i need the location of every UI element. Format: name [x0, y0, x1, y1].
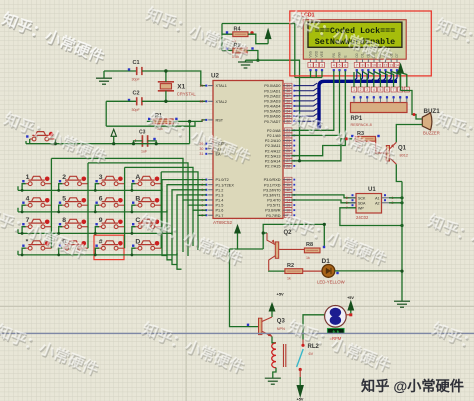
- op-amp U2 AT89C52 microcontroller body: [211, 73, 283, 226]
- capacitor C3 1uF: [134, 130, 156, 154]
- svg-text:24: 24: [286, 144, 290, 148]
- push button keypad #: [95, 239, 124, 251]
- svg-text:32: 32: [286, 120, 290, 124]
- svg-text:38: 38: [286, 89, 290, 93]
- resistor pack RP1 RESPACK-8: [351, 103, 408, 128]
- power +5V arrow Q2: [235, 226, 263, 250]
- resistor R4: [226, 27, 254, 43]
- push button keypad A: [132, 174, 161, 186]
- svg-text:P3.1/TXD: P3.1/TXD: [264, 183, 281, 187]
- svg-text:NPN: NPN: [277, 327, 285, 331]
- wire C3 stubs: [134, 141, 157, 144]
- svg-text:P1.7: P1.7: [216, 214, 224, 218]
- svg-text:1: 1: [353, 88, 355, 92]
- svg-text:4: 4: [373, 88, 375, 92]
- wire Q3 emitter to relay coil: [272, 337, 276, 343]
- power +5V arrow buzzer: [398, 64, 403, 90]
- svg-text:4: 4: [333, 64, 335, 68]
- svg-text:P2.7/A15: P2.7/A15: [265, 165, 281, 169]
- svg-text:P1.0/T2: P1.0/T2: [216, 178, 229, 182]
- wire R2 to D1: [303, 270, 323, 272]
- wire D1 to ground rail: [335, 270, 402, 272]
- svg-text:14: 14: [286, 198, 290, 202]
- wire ground rail right: [401, 182, 403, 301]
- resistor R5: [226, 43, 254, 59]
- svg-text:P1.5: P1.5: [216, 204, 224, 208]
- wire crystal top: [165, 71, 167, 82]
- push button keypad B: [132, 196, 161, 208]
- svg-text:P1.1/T2EX: P1.1/T2EX: [216, 183, 235, 187]
- wire Q1 collector to ground rail: [396, 164, 402, 181]
- svg-text:19: 19: [199, 84, 203, 88]
- LCD pin names and number boxes: [308, 50, 400, 71]
- bus entries from LCD D0-D7: [354, 71, 397, 81]
- RP1 pin risers to bus: [351, 72, 409, 103]
- wire RST lower rail: [106, 121, 195, 126]
- svg-text:RESPACK-8: RESPACK-8: [351, 123, 372, 127]
- relay RL2 switch: [297, 340, 320, 378]
- svg-text:U2: U2: [211, 73, 219, 80]
- wire C2 left rail down: [105, 101, 107, 126]
- transistor Q2: [267, 230, 304, 271]
- bus entries from P0 pins: [295, 83, 318, 121]
- wire coil bottom to ground: [273, 368, 276, 378]
- wire R4 R5 left rail: [222, 24, 233, 51]
- svg-text:VEE: VEE: [320, 51, 324, 57]
- wire P2.6 to R3: [292, 139, 353, 161]
- svg-text:AT89C52: AT89C52: [213, 220, 233, 225]
- push button reset: [26, 132, 55, 141]
- svg-text:5: 5: [346, 201, 348, 205]
- svg-text:3: 3: [366, 88, 368, 92]
- svg-text:P0.1/AD1: P0.1/AD1: [264, 89, 280, 93]
- svg-text:1k: 1k: [306, 256, 310, 260]
- wire U1 A1 A2 to ground rail: [389, 198, 402, 203]
- svg-text:3: 3: [99, 174, 103, 181]
- svg-text:22: 22: [286, 134, 290, 138]
- svg-text:25: 25: [286, 149, 290, 153]
- wire LCD VSS VDD VEE supply: [295, 71, 322, 78]
- wire keypad column 4: [161, 172, 206, 248]
- svg-text:P3.0/RXD: P3.0/RXD: [264, 178, 281, 182]
- push button keypad 5: [59, 196, 88, 208]
- svg-text:6: 6: [346, 196, 348, 200]
- resistor R8: [304, 242, 325, 260]
- push button keypad 9: [95, 217, 124, 229]
- svg-text:30pF: 30pF: [132, 78, 141, 82]
- ground relay coil: [265, 378, 281, 384]
- svg-text:P1.4: P1.4: [216, 199, 224, 203]
- svg-text:CRYSTAL: CRYSTAL: [177, 92, 197, 97]
- svg-text:39: 39: [286, 84, 290, 88]
- svg-text:P2.5/A13: P2.5/A13: [265, 154, 281, 158]
- svg-text:+5V: +5V: [347, 296, 354, 300]
- wire keypad row 4: [18, 195, 206, 255]
- svg-text:6: 6: [344, 64, 346, 68]
- svg-text:RW: RW: [338, 52, 342, 57]
- push button keypad *: [22, 239, 51, 251]
- svg-text:P3.3/INT1: P3.3/INT1: [263, 193, 280, 197]
- svg-text:Q1: Q1: [398, 146, 407, 152]
- svg-text:5: 5: [62, 196, 66, 203]
- svg-text:P0.5/AD5: P0.5/AD5: [264, 110, 280, 114]
- svg-text:C3: C3: [139, 130, 146, 136]
- svg-text:P0.6/AD6: P0.6/AD6: [264, 115, 280, 119]
- svg-text:P2.1/A9: P2.1/A9: [267, 134, 281, 138]
- bus P0 to LCD data: [319, 81, 397, 128]
- svg-text:+5V: +5V: [277, 292, 285, 297]
- svg-text:P2.6/A14: P2.6/A14: [265, 159, 281, 163]
- svg-text:B: B: [135, 196, 140, 203]
- wire LCD E to P2.5: [292, 71, 346, 156]
- push button keypad 1: [22, 174, 51, 186]
- svg-text:P2.4/A12: P2.4/A12: [265, 149, 281, 153]
- svg-text:13: 13: [286, 193, 290, 197]
- svg-text:34: 34: [286, 109, 290, 113]
- resistor R2: [285, 263, 303, 280]
- svg-text:R4: R4: [234, 27, 242, 33]
- svg-text:12: 12: [286, 188, 290, 192]
- memory U1 24C02: [356, 187, 382, 220]
- svg-text:4: 4: [26, 196, 30, 203]
- svg-text:BUZZER: BUZZER: [423, 131, 440, 136]
- push button keypad C: [132, 217, 161, 229]
- svg-text:A2: A2: [375, 202, 379, 206]
- svg-text:RST: RST: [216, 119, 224, 123]
- U1 pin stubs: [346, 194, 394, 210]
- resistor R1: [148, 113, 178, 131]
- wire buzzer top pin: [401, 91, 423, 120]
- svg-text:10: 10: [286, 178, 290, 182]
- svg-text:P2.3/A11: P2.3/A11: [265, 144, 280, 148]
- crystal X1: [158, 82, 197, 97]
- selection box around # key: [94, 235, 124, 259]
- wire feed to Q3 base: [230, 249, 259, 327]
- wire reset button row: [26, 139, 190, 144]
- wire U1 WP to ground rail: [340, 208, 402, 226]
- svg-text:Q3: Q3: [277, 319, 286, 325]
- svg-text:P3.2/INT0: P3.2/INT0: [263, 188, 280, 192]
- power +5V arrow Q3: [269, 292, 284, 318]
- svg-text:21: 21: [286, 129, 290, 133]
- svg-text:31: 31: [199, 152, 203, 156]
- svg-text:VSS: VSS: [309, 51, 313, 57]
- svg-text:P1.6: P1.6: [216, 209, 224, 213]
- transistor Q3 NPN: [259, 317, 286, 337]
- svg-text:VDD: VDD: [314, 50, 318, 57]
- buzzer BUZ1: [422, 108, 440, 136]
- wire R5 right down to ground line: [247, 51, 258, 61]
- svg-text:9: 9: [201, 118, 203, 122]
- wire crystal bottom: [165, 91, 167, 102]
- power +5V arrow top: [265, 30, 270, 44]
- svg-text:6: 6: [99, 196, 103, 203]
- svg-text:C1: C1: [133, 60, 140, 66]
- wire keypad row 3: [18, 190, 206, 234]
- wire Q2 collector to R2: [269, 270, 285, 272]
- wire R3 to Q1 base: [376, 139, 387, 153]
- svg-text:2: 2: [360, 88, 362, 92]
- divider line: [0, 332, 474, 334]
- svg-text:P2.2/A10: P2.2/A10: [265, 139, 281, 143]
- wire R1 right to RST: [173, 120, 206, 122]
- push button keypad 6: [95, 196, 124, 208]
- svg-text:6: 6: [386, 88, 388, 92]
- svg-text:36: 36: [286, 99, 290, 103]
- svg-text:37: 37: [286, 94, 290, 98]
- LCD module body: [303, 20, 406, 60]
- svg-text:A1: A1: [375, 197, 379, 201]
- wire C1 row: [104, 70, 136, 72]
- svg-text:5: 5: [379, 88, 381, 92]
- wire R4 right to +5V arrow: [248, 34, 268, 44]
- svg-text:1: 1: [310, 64, 312, 68]
- relay RL2 coil: [272, 343, 286, 368]
- LCD screen: [308, 22, 402, 47]
- svg-text:#: #: [99, 239, 103, 246]
- power +5V arrow motor: [346, 296, 354, 316]
- U2 right pin stubs and numbers: [263, 83, 295, 218]
- svg-text:26: 26: [286, 154, 290, 158]
- wire keypad row 1: [18, 180, 206, 191]
- svg-text:XTAL1: XTAL1: [216, 84, 227, 88]
- svg-text:P0.7/AD7: P0.7/AD7: [264, 120, 280, 124]
- svg-text:1uF: 1uF: [141, 150, 148, 154]
- svg-text:P3.5/T1: P3.5/T1: [267, 204, 280, 208]
- push button keypad D: [132, 239, 161, 251]
- svg-text:+5V: +5V: [297, 398, 304, 401]
- wire R1 left stub: [147, 120, 153, 122]
- svg-text:WP: WP: [358, 207, 364, 211]
- wire +5V rail top: [222, 24, 295, 78]
- svg-text:10: 10: [372, 64, 376, 68]
- wire LCD RS to P2.0: [292, 71, 334, 130]
- svg-text:P1.2: P1.2: [216, 188, 224, 192]
- wire buzzer bottom to Q1 emitter: [396, 125, 422, 143]
- svg-text:XTAL2: XTAL2: [216, 100, 227, 104]
- push button keypad 2: [59, 174, 88, 186]
- push button keypad 7: [22, 217, 51, 229]
- resistor R3: [345, 131, 380, 149]
- svg-text:D: D: [135, 239, 140, 246]
- wire keypad row 2: [18, 185, 206, 212]
- svg-text:2: 2: [315, 64, 317, 68]
- svg-text:18: 18: [199, 100, 203, 104]
- svg-text:P2.0/A8: P2.0/A8: [267, 129, 281, 133]
- push button keypad 4: [22, 196, 51, 208]
- capacitor C2 30pF: [128, 91, 142, 112]
- wire LCD RW to P2.1: [292, 71, 340, 135]
- svg-text:P0.4/AD4: P0.4/AD4: [264, 105, 280, 109]
- svg-text:9: 9: [99, 217, 103, 224]
- svg-text:C2: C2: [133, 91, 140, 97]
- svg-text:7: 7: [356, 64, 358, 68]
- svg-text:U1: U1: [368, 187, 376, 193]
- svg-text:3: 3: [321, 64, 323, 68]
- svg-text:P0.2/AD2: P0.2/AD2: [264, 94, 280, 98]
- svg-text:28: 28: [286, 164, 290, 168]
- svg-text:SCK: SCK: [358, 197, 366, 201]
- power arrow down relay: [297, 377, 304, 401]
- svg-text:LED-YELLOW: LED-YELLOW: [317, 280, 346, 285]
- wire relay pole to motor: [303, 315, 325, 340]
- ground crystal area: [96, 71, 112, 84]
- svg-text:27: 27: [286, 159, 290, 163]
- svg-text:RP1: RP1: [351, 116, 363, 122]
- svg-text:X1: X1: [177, 84, 185, 91]
- svg-text:23: 23: [286, 139, 290, 143]
- svg-text:P3.6/WR: P3.6/WR: [265, 209, 280, 213]
- svg-text:11: 11: [286, 183, 290, 187]
- svg-text:D7: D7: [395, 53, 399, 57]
- ground right rail: [394, 301, 410, 307]
- svg-text:R8: R8: [306, 242, 313, 248]
- wire keypad stair tails: [162, 189, 182, 270]
- svg-text:P0.0/AD0: P0.0/AD0: [264, 84, 280, 88]
- push button keypad 0: [59, 239, 88, 251]
- transistor Q1 8012: [386, 142, 408, 164]
- wire P3.4 SDA to U1: [292, 200, 357, 203]
- wire keypad column 3: [125, 167, 206, 248]
- U2 left pin stubs and numbers: [199, 84, 234, 218]
- power arrow reset: [111, 129, 116, 143]
- svg-text:33: 33: [286, 115, 290, 119]
- svg-text:RS: RS: [332, 53, 336, 57]
- svg-text:P3.7/RD: P3.7/RD: [266, 214, 281, 218]
- svg-text:14: 14: [395, 64, 399, 68]
- svg-text:知乎 @小常硬件: 知乎 @小常硬件: [361, 378, 464, 395]
- svg-text:9: 9: [367, 64, 369, 68]
- svg-text:A: A: [135, 174, 140, 181]
- wire +5V to Q2 emitter and R8: [263, 224, 324, 249]
- wire P3.3 SCL to U1: [292, 195, 357, 198]
- wire keypad column 2: [88, 163, 206, 248]
- svg-text:P3.4/T0: P3.4/T0: [267, 199, 280, 203]
- wire C2 row to XTAL2: [106, 100, 206, 102]
- svg-text:8: 8: [62, 217, 66, 224]
- LED D1 LED-YELLOW: [317, 258, 346, 285]
- svg-text:24C02: 24C02: [356, 215, 369, 220]
- svg-text:SDA: SDA: [358, 202, 366, 206]
- wire ground rail to LCD area: [246, 60, 300, 161]
- wire reset row to R1 node: [189, 121, 191, 143]
- svg-text:E: E: [344, 55, 348, 57]
- svg-text:35: 35: [286, 104, 290, 108]
- svg-text:5: 5: [339, 64, 341, 68]
- svg-text:8012: 8012: [400, 154, 408, 158]
- wire C1 to XTAL1: [142, 71, 206, 86]
- svg-text:30pF: 30pF: [132, 108, 141, 112]
- ground under R5: [238, 60, 253, 68]
- wire keypad column 1: [51, 158, 206, 248]
- svg-text:P0.3/AD3: P0.3/AD3: [264, 99, 280, 103]
- svg-text:1: 1: [26, 174, 30, 181]
- svg-text:2: 2: [62, 174, 66, 181]
- svg-text:8: 8: [362, 64, 364, 68]
- selection box around LCD1: [290, 11, 432, 76]
- svg-text:7: 7: [393, 88, 395, 92]
- svg-text:R2: R2: [287, 263, 294, 269]
- svg-text:15: 15: [286, 203, 290, 207]
- svg-text:1k: 1k: [287, 277, 291, 281]
- svg-text:6V: 6V: [309, 352, 314, 356]
- capacitor C1 30pF: [128, 60, 142, 82]
- push button keypad 8: [59, 217, 88, 229]
- motor: [325, 306, 347, 342]
- push button keypad 3: [95, 174, 124, 186]
- svg-text:P1.3: P1.3: [216, 193, 224, 197]
